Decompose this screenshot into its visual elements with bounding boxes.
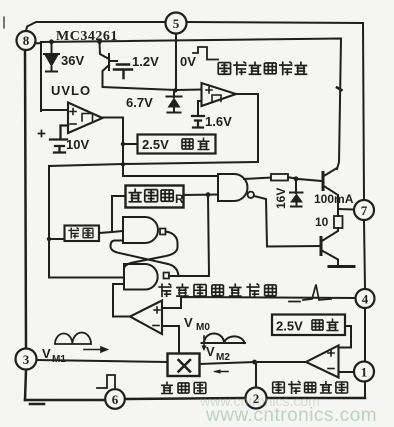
wire delay output to latch gate xyxy=(99,231,123,233)
text timer cjk xyxy=(129,189,184,207)
text multiplier cjk xyxy=(161,382,206,394)
waveform humps pin3 xyxy=(55,333,91,344)
V labels xyxy=(42,315,230,365)
node pin5 junction xyxy=(173,88,177,92)
wire right rail 7-4-1 xyxy=(363,23,365,398)
battery 1.6V xyxy=(192,116,204,128)
pin 6 xyxy=(105,389,125,409)
op-amp U2 zero current comparator xyxy=(202,83,237,106)
ground Q2 emitter xyxy=(329,265,354,268)
zener D1 36V xyxy=(44,42,59,72)
inner VCC rail rectangle xyxy=(41,39,341,170)
arrow left below wire xyxy=(215,371,228,373)
node dot delay tee xyxy=(47,237,51,241)
op-amp U4 error amplifier xyxy=(306,346,339,378)
wire to delay box xyxy=(49,238,64,240)
resistor R1 xyxy=(271,174,288,181)
scan dash below pin3 wire xyxy=(30,403,44,406)
resistor R2 10ohm xyxy=(334,216,343,228)
box multiplier xyxy=(168,354,200,377)
zener D2 6.7V xyxy=(167,90,182,113)
wire down to pin2 xyxy=(255,362,257,387)
waveform pulse pin6 xyxy=(97,375,115,388)
wire ref2 to error amp + xyxy=(339,326,352,348)
wire G1 bubble to Q2 base xyxy=(254,196,321,247)
wire node to Q1 base xyxy=(296,179,322,181)
wire ZCD output down to latch line xyxy=(236,94,258,162)
node crossing UVLO/ZCD xyxy=(121,162,125,166)
wire comparator + to pin4 xyxy=(162,297,355,308)
bubble G3 square xyxy=(164,273,170,279)
pin 2 xyxy=(246,388,267,409)
transistor Q2 NPN lower xyxy=(320,238,323,255)
watermark xyxy=(199,393,377,426)
wire Q1 emitter to pin7 xyxy=(338,208,353,211)
pin 4 xyxy=(356,289,375,308)
box 2.5V reference 1 xyxy=(138,135,216,154)
op-amp U1 UVLO comparator xyxy=(68,103,103,134)
arrow right pin3 xyxy=(84,347,107,352)
waveform humps VM2 xyxy=(202,334,246,344)
text 2.5V ref 1 cjk xyxy=(182,138,210,150)
gate G2 latch NAND upper xyxy=(123,217,158,243)
pin 8 xyxy=(17,31,36,50)
wire resistor to node xyxy=(288,177,296,178)
gate G1 big NAND driver xyxy=(218,174,248,201)
wire latch cross B xyxy=(111,241,179,277)
pin 5 xyxy=(166,13,187,34)
wire UVLO to NAND top input xyxy=(123,175,218,177)
arrow down VM2 xyxy=(203,336,205,347)
wire UVLO output xyxy=(103,118,124,177)
bubble G1 xyxy=(248,192,254,198)
wire ZCD - input to 1.6V xyxy=(198,101,202,114)
wire latch Q up to NAND input xyxy=(169,195,209,276)
wire latch R input xyxy=(49,277,124,279)
node dot output stage xyxy=(294,176,299,181)
wire link pin8 to inner rail xyxy=(35,43,41,111)
wire to 2.5V ref xyxy=(121,142,125,146)
box timer xyxy=(126,186,184,208)
node dot transistor bias xyxy=(97,39,102,44)
battery 1.2V xyxy=(114,65,132,79)
wire top rail pin5 to right corner xyxy=(187,22,363,23)
gate G3 latch NAND lower xyxy=(124,264,158,290)
pin 3 xyxy=(16,349,37,370)
wire ZCD latch line long xyxy=(49,162,258,277)
text zero current detector xyxy=(218,62,307,76)
box 2.5V reference 2 xyxy=(272,315,345,336)
wire comparator - to multiplier xyxy=(162,326,179,354)
wire pin3 to multiplier xyxy=(37,360,167,362)
wire base to 1.2V cell xyxy=(109,60,117,62)
wire pin1 to error amp - xyxy=(339,371,355,373)
op-amp U3 current sense comparator xyxy=(130,301,162,335)
box delay xyxy=(65,226,100,242)
wire error amp to multiplier xyxy=(200,362,307,364)
text current sense comparator xyxy=(158,284,276,298)
transistor Q1 NPN upper xyxy=(322,173,325,190)
wire pin5 down xyxy=(175,34,177,90)
waveform pulse top (0V) xyxy=(193,47,218,60)
bubble G2 square xyxy=(160,229,166,235)
wire left rail xyxy=(25,51,26,400)
node dot comp pin2 xyxy=(252,360,257,365)
scan tick on inner rail xyxy=(337,88,342,91)
wire bottom rail xyxy=(25,398,365,400)
wire G1 out to resistor xyxy=(244,178,271,180)
node dot 36V xyxy=(49,39,54,44)
pin 1 xyxy=(354,362,374,382)
transistor Q bias (emitter follower) xyxy=(100,42,110,87)
wire latch cross A xyxy=(124,232,178,269)
labels latin xyxy=(51,29,354,334)
pin 7 xyxy=(354,200,374,220)
wire top rail pin8 to pin5 xyxy=(26,22,165,32)
battery 10V xyxy=(50,126,68,153)
wire timer output to NAND xyxy=(184,194,219,197)
text 2.5V ref 2 cjk xyxy=(312,319,339,331)
text error amplifier cjk xyxy=(273,381,348,394)
wire UVLO + input from rail xyxy=(41,109,68,111)
wire comparator output to latch xyxy=(113,284,130,317)
waveform spike pin4 xyxy=(289,285,331,302)
scan tick top-left xyxy=(3,17,5,28)
zener D3 16V xyxy=(290,179,303,207)
text delay cjk xyxy=(68,228,93,239)
wire timer input xyxy=(112,196,126,231)
wire bias line to ZCD input xyxy=(103,87,202,90)
